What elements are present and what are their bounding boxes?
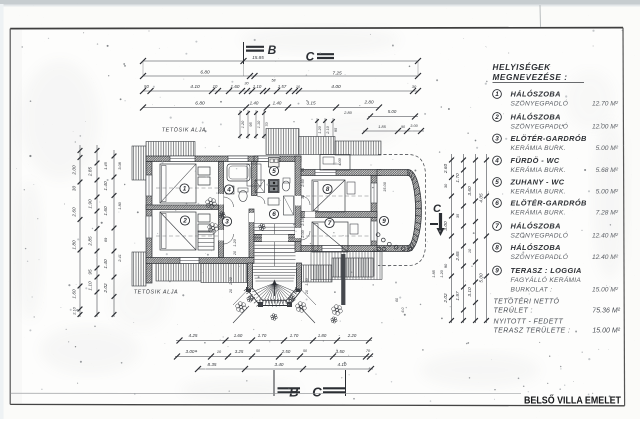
- svg-text:BELSŐ VILLA EMELET: BELSŐ VILLA EMELET: [524, 395, 621, 407]
